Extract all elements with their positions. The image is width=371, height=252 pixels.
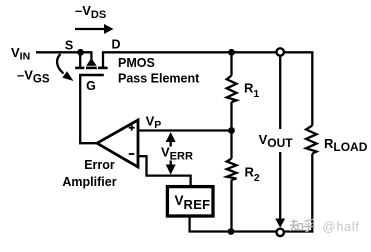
- svg-text:S: S: [65, 39, 73, 53]
- minus input mark: [129, 153, 135, 155]
- wire minus input to VREF: [138, 155, 191, 186]
- source contact bar: [75, 67, 84, 70]
- body contact bar: [86, 67, 97, 70]
- svg-text:G: G: [86, 79, 96, 93]
- arrow VGS curved: [57, 54, 73, 81]
- substrate arrow: [86, 58, 96, 66]
- resistor R1: [227, 52, 237, 130]
- svg-text:Pass Element: Pass Element: [118, 72, 200, 86]
- wire VIN input: [36, 51, 93, 53]
- terminal VOUT- open circle: [277, 229, 284, 236]
- voltage reference U2 VREF box: [167, 187, 213, 216]
- transistor Q1 PMOS pass element: [75, 52, 107, 75]
- body stub: [90, 52, 92, 59]
- wire bottom rail: [189, 230, 312, 232]
- terminal VOUT+ open circle: [277, 48, 284, 55]
- watermark zhihu glyphs: [290, 219, 315, 231]
- op-amp U1 error amplifier: [97, 120, 138, 167]
- resistor RLOAD: [306, 51, 317, 232]
- wire top rail drain to RLOAD: [102, 51, 312, 53]
- node S junction dot: [77, 49, 84, 56]
- wire error amp output: [79, 142, 97, 144]
- svg-text:Amplifier: Amplifier: [62, 175, 116, 189]
- arrow VERR double-headed: [166, 132, 176, 175]
- gate bar: [79, 74, 104, 77]
- wire gate lead down: [79, 74, 81, 144]
- node R1 tap junction dot: [228, 49, 235, 56]
- drain lead: [102, 52, 104, 67]
- svg-text:@half: @half: [323, 219, 360, 234]
- plus input mark: [129, 127, 135, 129]
- wire VOUT sense line lower: [279, 152, 281, 219]
- wire VREF to ground rail: [188, 216, 190, 233]
- svg-text:PMOS: PMOS: [118, 56, 155, 70]
- svg-text:Error: Error: [84, 158, 115, 172]
- node ground rail junction dot: [228, 228, 235, 235]
- wire VP plus input to divider: [138, 129, 232, 131]
- node VP junction dot: [228, 127, 235, 134]
- svg-text:D: D: [111, 38, 120, 52]
- arrow VOUT down arrowhead: [275, 219, 285, 228]
- source lead: [79, 52, 81, 67]
- wire VOUT sense line upper: [279, 55, 281, 129]
- arrow VDS: [75, 24, 114, 34]
- resistor R2: [227, 131, 237, 232]
- drain contact bar: [98, 67, 108, 70]
